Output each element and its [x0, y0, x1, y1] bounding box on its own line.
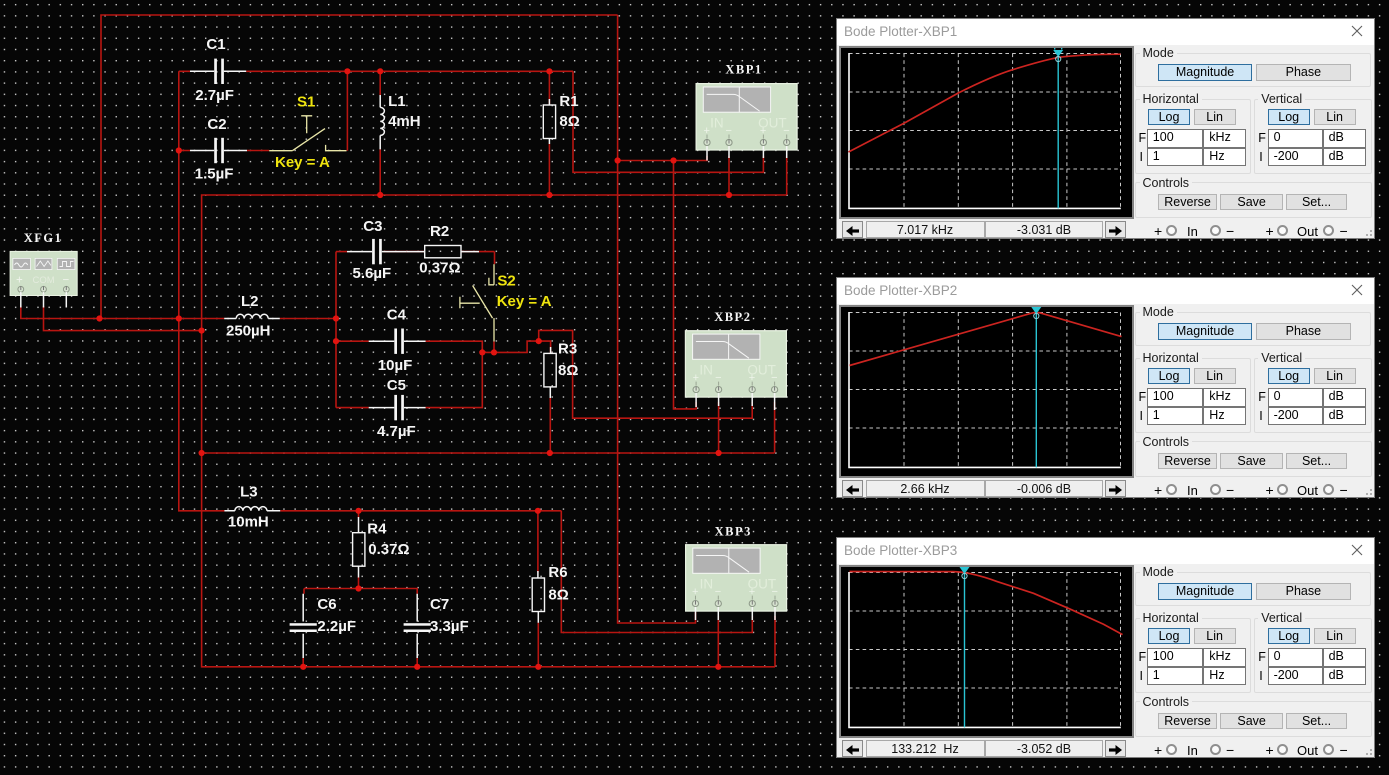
junction C7 gnd	[414, 664, 420, 670]
svg-text:+: +	[749, 372, 755, 384]
svg-text:−: −	[771, 372, 777, 384]
svg-text:R1: R1	[559, 93, 578, 110]
svg-text:−: −	[783, 125, 789, 137]
wire R1 bottom	[548, 144, 550, 195]
wire top outer rail	[101, 15, 618, 319]
plot display XBP3	[839, 565, 1134, 738]
svg-text:L3: L3	[240, 484, 258, 501]
bode plotter icon XBP2	[685, 331, 786, 397]
wire XBP1 IN+ branch	[618, 156, 707, 161]
junction C2 left	[176, 147, 182, 153]
in/out terminals row XBP3	[1154, 742, 1162, 758]
plot display XBP2	[839, 305, 1134, 478]
resistor R2	[425, 246, 461, 258]
wire R4 bottom	[358, 577, 360, 589]
inductor L2	[236, 314, 268, 318]
junction left rail / source	[96, 315, 102, 321]
plot display XBP1	[839, 46, 1134, 219]
capacitor C6	[290, 623, 317, 632]
readout bar XBP3	[842, 740, 863, 757]
svg-text:5.6µF: 5.6µF	[353, 265, 392, 282]
svg-text:IN: IN	[710, 116, 724, 131]
svg-text:0.37Ω: 0.37Ω	[419, 260, 460, 277]
capacitor C4	[394, 329, 404, 354]
svg-text:IN: IN	[699, 363, 713, 378]
vertical group XBP2	[1254, 358, 1373, 433]
wire R3 node to XBP2 OUT+	[539, 330, 753, 418]
wire L3 row out	[280, 510, 561, 512]
wire S1 to node A	[346, 71, 348, 150]
mode group XBP3	[1135, 572, 1371, 607]
horizontal group XBP3	[1135, 618, 1251, 693]
junction C4C5 node	[479, 349, 485, 355]
svg-text:S1: S1	[297, 94, 315, 111]
readout bar XBP1	[842, 221, 863, 238]
wire S2 node jog to R3	[482, 341, 550, 353]
svg-text:−: −	[63, 275, 70, 287]
horizontal group XBP2	[1135, 358, 1251, 433]
svg-text:R2: R2	[430, 223, 449, 240]
junction COM corner	[199, 328, 205, 334]
instrument window Bode Plotter-XBP2	[836, 277, 1375, 498]
svg-text:+: +	[693, 372, 699, 384]
svg-text:XBP3: XBP3	[715, 524, 752, 538]
wire C6 bottom	[302, 658, 304, 667]
wire R6 top	[537, 511, 539, 573]
junction R4 top node	[355, 508, 361, 514]
svg-text:C7: C7	[430, 596, 449, 613]
svg-text:+: +	[692, 586, 698, 598]
switch S1	[269, 116, 346, 151]
in/out terminals row XBP1	[1154, 223, 1162, 239]
wire mid rail x=336 (C3..C5)	[335, 252, 337, 408]
wire lower ground rail x=201.6	[202, 331, 775, 667]
bode plotter icon XBP3	[686, 545, 787, 611]
wire XFG1 COM feed	[44, 306, 202, 331]
junction C6 gnd	[300, 664, 306, 670]
resistor R2 leads	[407, 251, 479, 253]
capacitor C7	[404, 623, 431, 632]
svg-text:Key = A: Key = A	[275, 154, 330, 171]
svg-text:3.3µF: 3.3µF	[430, 618, 469, 635]
wire R4 top	[358, 511, 360, 518]
resize grip XBP2	[1363, 486, 1373, 496]
svg-text:XBP1: XBP1	[725, 63, 762, 77]
svg-text:C6: C6	[317, 596, 336, 613]
junction XBP2 IN- gnd	[716, 450, 722, 456]
wire C5 row	[336, 352, 482, 407]
horizontal group XBP1	[1135, 99, 1251, 174]
svg-text:−: −	[772, 586, 778, 598]
controls group XBP1	[1135, 182, 1372, 218]
resistor R1	[543, 105, 555, 139]
resistor R3	[544, 353, 556, 387]
XFG1 terminal leads	[21, 292, 67, 308]
svg-text:+: +	[16, 275, 23, 287]
svg-text:8Ω: 8Ω	[559, 113, 579, 130]
junction XBP1 IN- gnd	[726, 192, 732, 198]
instrument window Bode Plotter-XBP1	[836, 18, 1375, 239]
svg-text:+: +	[760, 125, 766, 137]
svg-text:8Ω: 8Ω	[548, 587, 568, 604]
controls group XBP3	[1135, 701, 1372, 737]
svg-text:XBP2: XBP2	[714, 310, 751, 324]
junction R1 top	[546, 68, 552, 74]
svg-text:0.37Ω: 0.37Ω	[368, 541, 409, 558]
svg-text:C3: C3	[363, 218, 382, 235]
junction R6 gnd	[535, 664, 541, 670]
svg-text:R6: R6	[548, 564, 567, 581]
wire L3 node to XBP3 OUT+	[561, 511, 752, 633]
XBP3 leads	[696, 607, 776, 620]
svg-text:L1: L1	[388, 93, 406, 110]
inductor L3	[235, 507, 267, 511]
resistor R1 leads	[548, 99, 550, 144]
svg-text:IN: IN	[700, 577, 714, 592]
wire node A top (C1-S1-L1-R1)	[179, 70, 573, 72]
junction IN+ rail	[615, 157, 621, 163]
junction C2 rail / source	[176, 315, 182, 321]
wire C7 bottom	[416, 658, 418, 667]
wire left rail x=178.8 (C1 to L3)	[179, 71, 225, 511]
capacitor C5	[394, 395, 404, 420]
svg-text:4mH: 4mH	[388, 113, 421, 130]
wire XBP1 OUT- drop	[786, 156, 788, 195]
junction L1 bottom	[377, 192, 383, 198]
svg-text:8Ω: 8Ω	[558, 362, 578, 379]
junction R3 top	[536, 338, 542, 344]
svg-text:2.7µF: 2.7µF	[195, 87, 234, 104]
wire XBP2 IN- drop	[718, 402, 720, 453]
junction R3 bottom gnd	[547, 450, 553, 456]
svg-text:−: −	[715, 372, 721, 384]
svg-text:10mH: 10mH	[228, 513, 269, 530]
wire XBP1 IN+ rail x=617.6	[618, 15, 696, 623]
wire XFG1 plus feed	[21, 306, 224, 319]
junction L1 top	[377, 68, 383, 74]
inductor L1 leads	[379, 95, 381, 149]
svg-text:C2: C2	[207, 116, 226, 133]
wire XBP3 OUT- drop	[774, 616, 776, 667]
in/out terminals row XBP2	[1154, 482, 1162, 498]
svg-text:COM: COM	[33, 275, 55, 286]
capacitor C3 leads	[347, 251, 407, 253]
junction S1-node A	[344, 68, 350, 74]
svg-text:L2: L2	[241, 293, 259, 310]
resize grip XBP3	[1363, 746, 1373, 756]
wire XBP1 IN- drop	[728, 156, 730, 195]
junction C4 left	[333, 338, 339, 344]
junction R1 bottom	[546, 192, 552, 198]
wire L2 to mid rail	[280, 318, 336, 320]
capacitor C5 leads	[369, 407, 426, 409]
wire XBP2 OUT- drop	[774, 402, 776, 453]
svg-text:C5: C5	[387, 377, 406, 394]
instrument window Bode Plotter-XBP3	[836, 537, 1375, 758]
resistor R6	[532, 578, 544, 612]
inductor L3 leads	[224, 510, 280, 512]
wire C2 to S1	[179, 150, 269, 152]
wire C6 C7 top tee	[304, 589, 417, 594]
svg-text:250µH: 250µH	[226, 322, 271, 339]
junction XBP3 IN- gnd	[715, 664, 721, 670]
junction mid gnd left	[199, 450, 205, 456]
svg-text:4.7µF: 4.7µF	[377, 423, 416, 440]
svg-text:1.5µF: 1.5µF	[195, 166, 234, 183]
wire S2 pole drop	[493, 342, 495, 353]
junction L2 right	[333, 315, 339, 321]
controls group XBP2	[1135, 441, 1372, 477]
resistor R3 leads	[549, 347, 551, 398]
svg-text:+: +	[749, 586, 755, 598]
capacitor C2 leads	[190, 150, 247, 152]
resistor R4 leads	[358, 517, 360, 578]
wire XBP2 IN+ rail x=673.5	[674, 161, 697, 409]
svg-text:C1: C1	[206, 36, 225, 53]
wire L1 bottom	[379, 149, 381, 195]
svg-text:XFG1: XFG1	[24, 231, 63, 245]
XBP1 leads	[707, 146, 787, 161]
svg-text:R4: R4	[367, 520, 387, 537]
svg-text:S2: S2	[497, 273, 515, 290]
wire R6 bottom	[537, 623, 539, 667]
readout bar XBP2	[842, 480, 863, 497]
wire L1 top	[379, 71, 381, 95]
wire C3 row	[336, 251, 495, 253]
title bar XBP1	[837, 19, 1374, 45]
XBP2 leads	[696, 393, 775, 410]
svg-text:10µF: 10µF	[378, 357, 413, 374]
capacitor C1 leads	[190, 70, 246, 72]
resistor R4	[353, 533, 365, 567]
resistor R6 leads	[537, 571, 539, 623]
vertical group XBP1	[1254, 99, 1373, 174]
capacitor C7 leads	[416, 594, 418, 658]
title bar XBP3	[837, 538, 1374, 564]
junction XBP2 rail tap	[670, 157, 676, 163]
wire C4 row	[336, 341, 482, 352]
wire R3 bottom	[549, 398, 551, 453]
junction S2 pole	[491, 349, 497, 355]
svg-text:+: +	[704, 125, 710, 137]
wire node A to XBP1 OUT+	[573, 71, 763, 172]
wire R1 top	[548, 71, 550, 104]
svg-text:2.2µF: 2.2µF	[317, 618, 356, 635]
svg-text:C4: C4	[387, 306, 407, 323]
inductor L2 leads	[224, 318, 280, 320]
junction R4 bottom node	[355, 585, 361, 591]
capacitor C3	[372, 239, 382, 264]
svg-text:−: −	[715, 586, 721, 598]
junction R6 top node	[535, 508, 541, 514]
vertical group XBP3	[1254, 618, 1373, 693]
switch S2	[460, 264, 494, 341]
title bar XBP2	[837, 278, 1374, 304]
capacitor C1	[214, 59, 224, 84]
svg-text:−: −	[726, 125, 732, 137]
mode group XBP2	[1135, 312, 1371, 347]
wire mid ground y=453	[202, 452, 775, 454]
bode plotter icon XBP1	[696, 84, 797, 150]
inductor L1	[380, 107, 384, 135]
resize grip XBP1	[1363, 227, 1373, 237]
svg-text:R3: R3	[558, 341, 577, 358]
wire ground bus y=195	[202, 195, 787, 331]
svg-text:Key = A: Key = A	[497, 293, 552, 310]
wire XBP3 IN- drop	[717, 616, 719, 667]
mode group XBP1	[1135, 53, 1371, 88]
capacitor C4 leads	[369, 340, 426, 342]
function generator XFG1	[10, 251, 77, 295]
wire R2 to S2	[494, 252, 496, 265]
capacitor C6 leads	[302, 594, 304, 658]
capacitor C2	[214, 138, 224, 163]
